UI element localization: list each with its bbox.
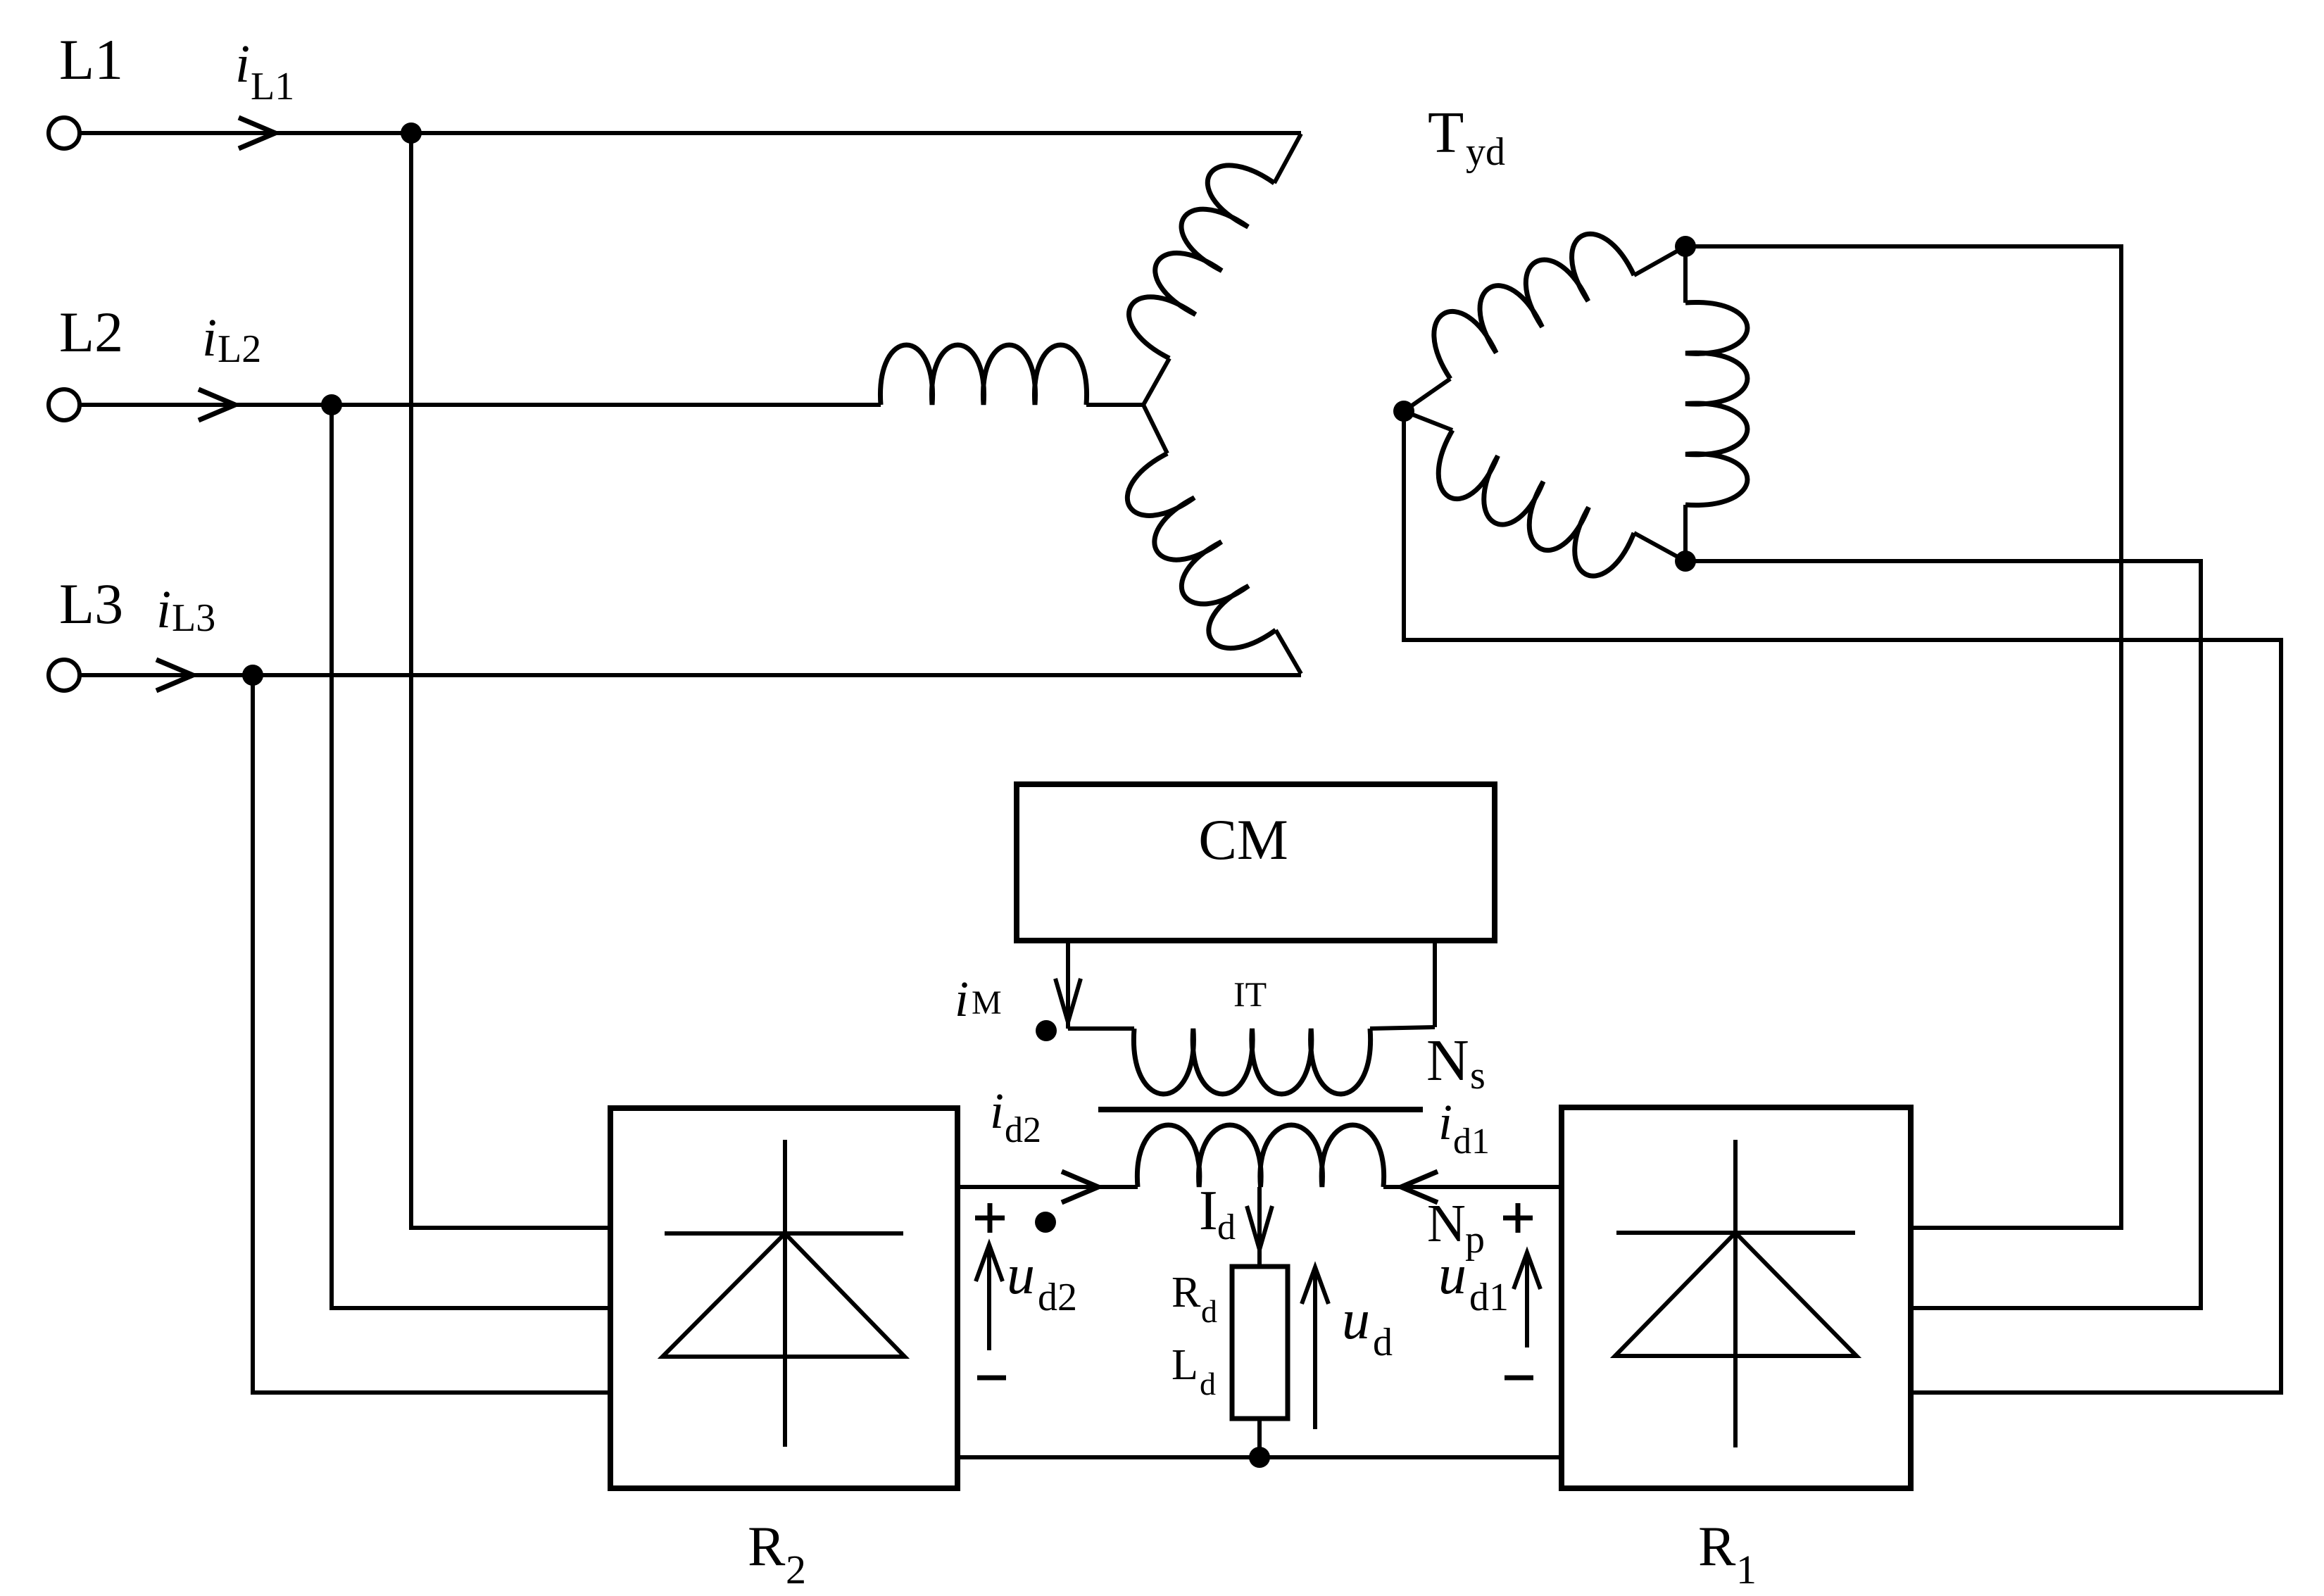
svg-text:R: R bbox=[1172, 1269, 1201, 1317]
svg-text:d: d bbox=[1373, 1321, 1393, 1364]
svg-text:d2: d2 bbox=[1038, 1276, 1077, 1319]
delta node b dot bbox=[1675, 236, 1696, 257]
svg-text:i: i bbox=[235, 34, 250, 94]
label L2 bbox=[59, 300, 123, 364]
svg-text:IT: IT bbox=[1233, 974, 1267, 1014]
bottom dc wire bbox=[957, 1455, 1562, 1459]
IT secondary winding Ns bbox=[1068, 1027, 1435, 1094]
wire delta node a to R1 bbox=[1404, 411, 2281, 1393]
wire L2 bbox=[80, 403, 881, 407]
arrow iL3 bbox=[156, 660, 193, 691]
svg-text:1: 1 bbox=[1736, 1547, 1757, 1592]
svg-text:R: R bbox=[748, 1516, 786, 1578]
IT secondary left leg bbox=[1066, 941, 1070, 1029]
svg-text:i: i bbox=[1438, 1094, 1452, 1150]
terminal L2 bbox=[49, 389, 80, 420]
delta node a dot bbox=[1393, 401, 1414, 422]
svg-text:L1: L1 bbox=[59, 27, 123, 92]
svg-text:L1: L1 bbox=[251, 65, 294, 108]
svg-text:d1: d1 bbox=[1453, 1121, 1490, 1162]
svg-text:d: d bbox=[1200, 1366, 1216, 1402]
IT core bar bbox=[1098, 1107, 1423, 1112]
svg-text:T: T bbox=[1428, 100, 1464, 165]
load resistor Rd Ld bbox=[1232, 1267, 1288, 1419]
label R2 bbox=[748, 1516, 806, 1592]
label Tyd bbox=[1428, 100, 1505, 174]
svg-text:yd: yd bbox=[1466, 130, 1505, 174]
junction dot L3 bbox=[242, 665, 263, 686]
svg-text:s: s bbox=[1470, 1054, 1486, 1098]
label Ld bbox=[1172, 1341, 1216, 1402]
junction dot load bottom bbox=[1249, 1447, 1270, 1468]
label R1 bbox=[1698, 1516, 1757, 1592]
Tyd delta winding a-c (lower) bbox=[1404, 411, 1685, 576]
arrow ud bbox=[1302, 1267, 1329, 1429]
ud2 plus bbox=[975, 1203, 1005, 1233]
Tyd delta winding b-c (right) bbox=[1685, 246, 1747, 561]
R2 thyristor gate bar bbox=[665, 1231, 903, 1236]
wire L2 to R2 bbox=[332, 405, 610, 1308]
wire L3 bbox=[80, 673, 1301, 677]
R2 thyristor triangle bbox=[662, 1233, 905, 1357]
svg-text:2: 2 bbox=[786, 1547, 806, 1592]
arrow id2 bbox=[1062, 1171, 1098, 1202]
label ud1 bbox=[1438, 1244, 1509, 1319]
label iL1 bbox=[235, 34, 294, 108]
svg-text:p: p bbox=[1465, 1218, 1485, 1262]
terminal L3 bbox=[49, 660, 80, 691]
delta node c dot bbox=[1675, 551, 1696, 572]
svg-text:CM: CM bbox=[1198, 808, 1288, 872]
terminal L1 bbox=[49, 118, 80, 149]
rectifier R2 box bbox=[610, 1108, 957, 1488]
wire delta node c to R1 bbox=[1685, 561, 2201, 1308]
IT primary winding Np bbox=[1137, 1125, 1383, 1187]
wire L3 to R2 bbox=[253, 675, 610, 1393]
IT primary polarity dot bbox=[1035, 1212, 1056, 1233]
wire delta node b to R1 bbox=[1685, 246, 2121, 1228]
svg-text:u: u bbox=[1007, 1244, 1035, 1306]
svg-text:d1: d1 bbox=[1469, 1276, 1509, 1319]
arrow ud1 bbox=[1514, 1252, 1540, 1347]
svg-text:i: i bbox=[202, 308, 217, 367]
label Id bbox=[1199, 1180, 1236, 1248]
svg-text:L3: L3 bbox=[172, 596, 215, 640]
svg-text:R: R bbox=[1698, 1516, 1736, 1578]
label L3 bbox=[59, 572, 123, 636]
svg-text:N: N bbox=[1426, 1028, 1469, 1093]
svg-text:L2: L2 bbox=[59, 300, 123, 364]
label iL3 bbox=[156, 580, 215, 640]
svg-text:i: i bbox=[955, 971, 969, 1027]
R2 thyristor vertical bbox=[783, 1140, 787, 1447]
label id1 bbox=[1438, 1094, 1490, 1162]
arrow iL2 bbox=[199, 389, 235, 420]
label Ns bbox=[1426, 1028, 1486, 1098]
IT secondary right leg bbox=[1433, 941, 1437, 1027]
label Rd bbox=[1172, 1269, 1217, 1329]
arrow iM bbox=[1055, 979, 1081, 1022]
svg-text:L: L bbox=[1172, 1341, 1198, 1389]
svg-text:d: d bbox=[1201, 1293, 1217, 1329]
label Np bbox=[1427, 1194, 1485, 1262]
svg-text:M: M bbox=[972, 984, 1002, 1022]
arrow ud2 bbox=[976, 1245, 1003, 1350]
svg-text:L3: L3 bbox=[59, 572, 123, 636]
label L1 bbox=[59, 27, 123, 92]
svg-text:I: I bbox=[1199, 1180, 1218, 1242]
svg-text:u: u bbox=[1438, 1244, 1466, 1306]
ud2 minus bbox=[977, 1376, 1006, 1381]
label ud bbox=[1342, 1289, 1393, 1364]
label iL2 bbox=[202, 308, 261, 371]
Tyd wye winding phase1 (top) bbox=[1129, 134, 1301, 405]
wire L1 to R2 bbox=[411, 133, 610, 1228]
wire load to bottom bbox=[1257, 1419, 1262, 1457]
IT secondary polarity dot bbox=[1036, 1020, 1057, 1041]
wire R2 to IT primary bbox=[957, 1185, 1138, 1189]
R1 thyristor gate bar bbox=[1616, 1231, 1855, 1235]
svg-text:L2: L2 bbox=[218, 327, 261, 371]
Tyd delta winding a-b (upper) bbox=[1404, 234, 1685, 411]
R1 thyristor triangle bbox=[1615, 1233, 1857, 1356]
control module CM box bbox=[1017, 784, 1495, 941]
label ud2 bbox=[1007, 1244, 1077, 1319]
Tyd wye winding phase3 (bottom) bbox=[1127, 405, 1301, 674]
arrow id1 bbox=[1401, 1171, 1438, 1202]
arrow Id bbox=[1247, 1206, 1272, 1250]
label CM bbox=[1198, 808, 1288, 872]
rectifier R1 box bbox=[1562, 1107, 1911, 1488]
junction dot L2 bbox=[321, 394, 342, 415]
svg-text:d: d bbox=[1217, 1207, 1236, 1248]
ud1 plus bbox=[1503, 1203, 1533, 1233]
svg-text:d2: d2 bbox=[1005, 1110, 1041, 1150]
label iM bbox=[955, 971, 1002, 1027]
junction dot L1 bbox=[401, 122, 422, 144]
svg-text:i: i bbox=[156, 580, 171, 639]
wire IT primary to R1 bbox=[1383, 1185, 1562, 1189]
label IT bbox=[1233, 974, 1267, 1014]
R1 thyristor vertical bbox=[1733, 1140, 1738, 1447]
wire L1 bbox=[80, 131, 1301, 135]
wire Id branch bbox=[1257, 1187, 1262, 1267]
label id2 bbox=[990, 1083, 1041, 1150]
Tyd wye winding phase2 (middle) bbox=[880, 345, 1143, 405]
ud1 minus bbox=[1505, 1376, 1533, 1381]
svg-text:i: i bbox=[990, 1083, 1004, 1139]
arrow iL1 bbox=[239, 118, 275, 149]
svg-text:u: u bbox=[1342, 1289, 1370, 1351]
